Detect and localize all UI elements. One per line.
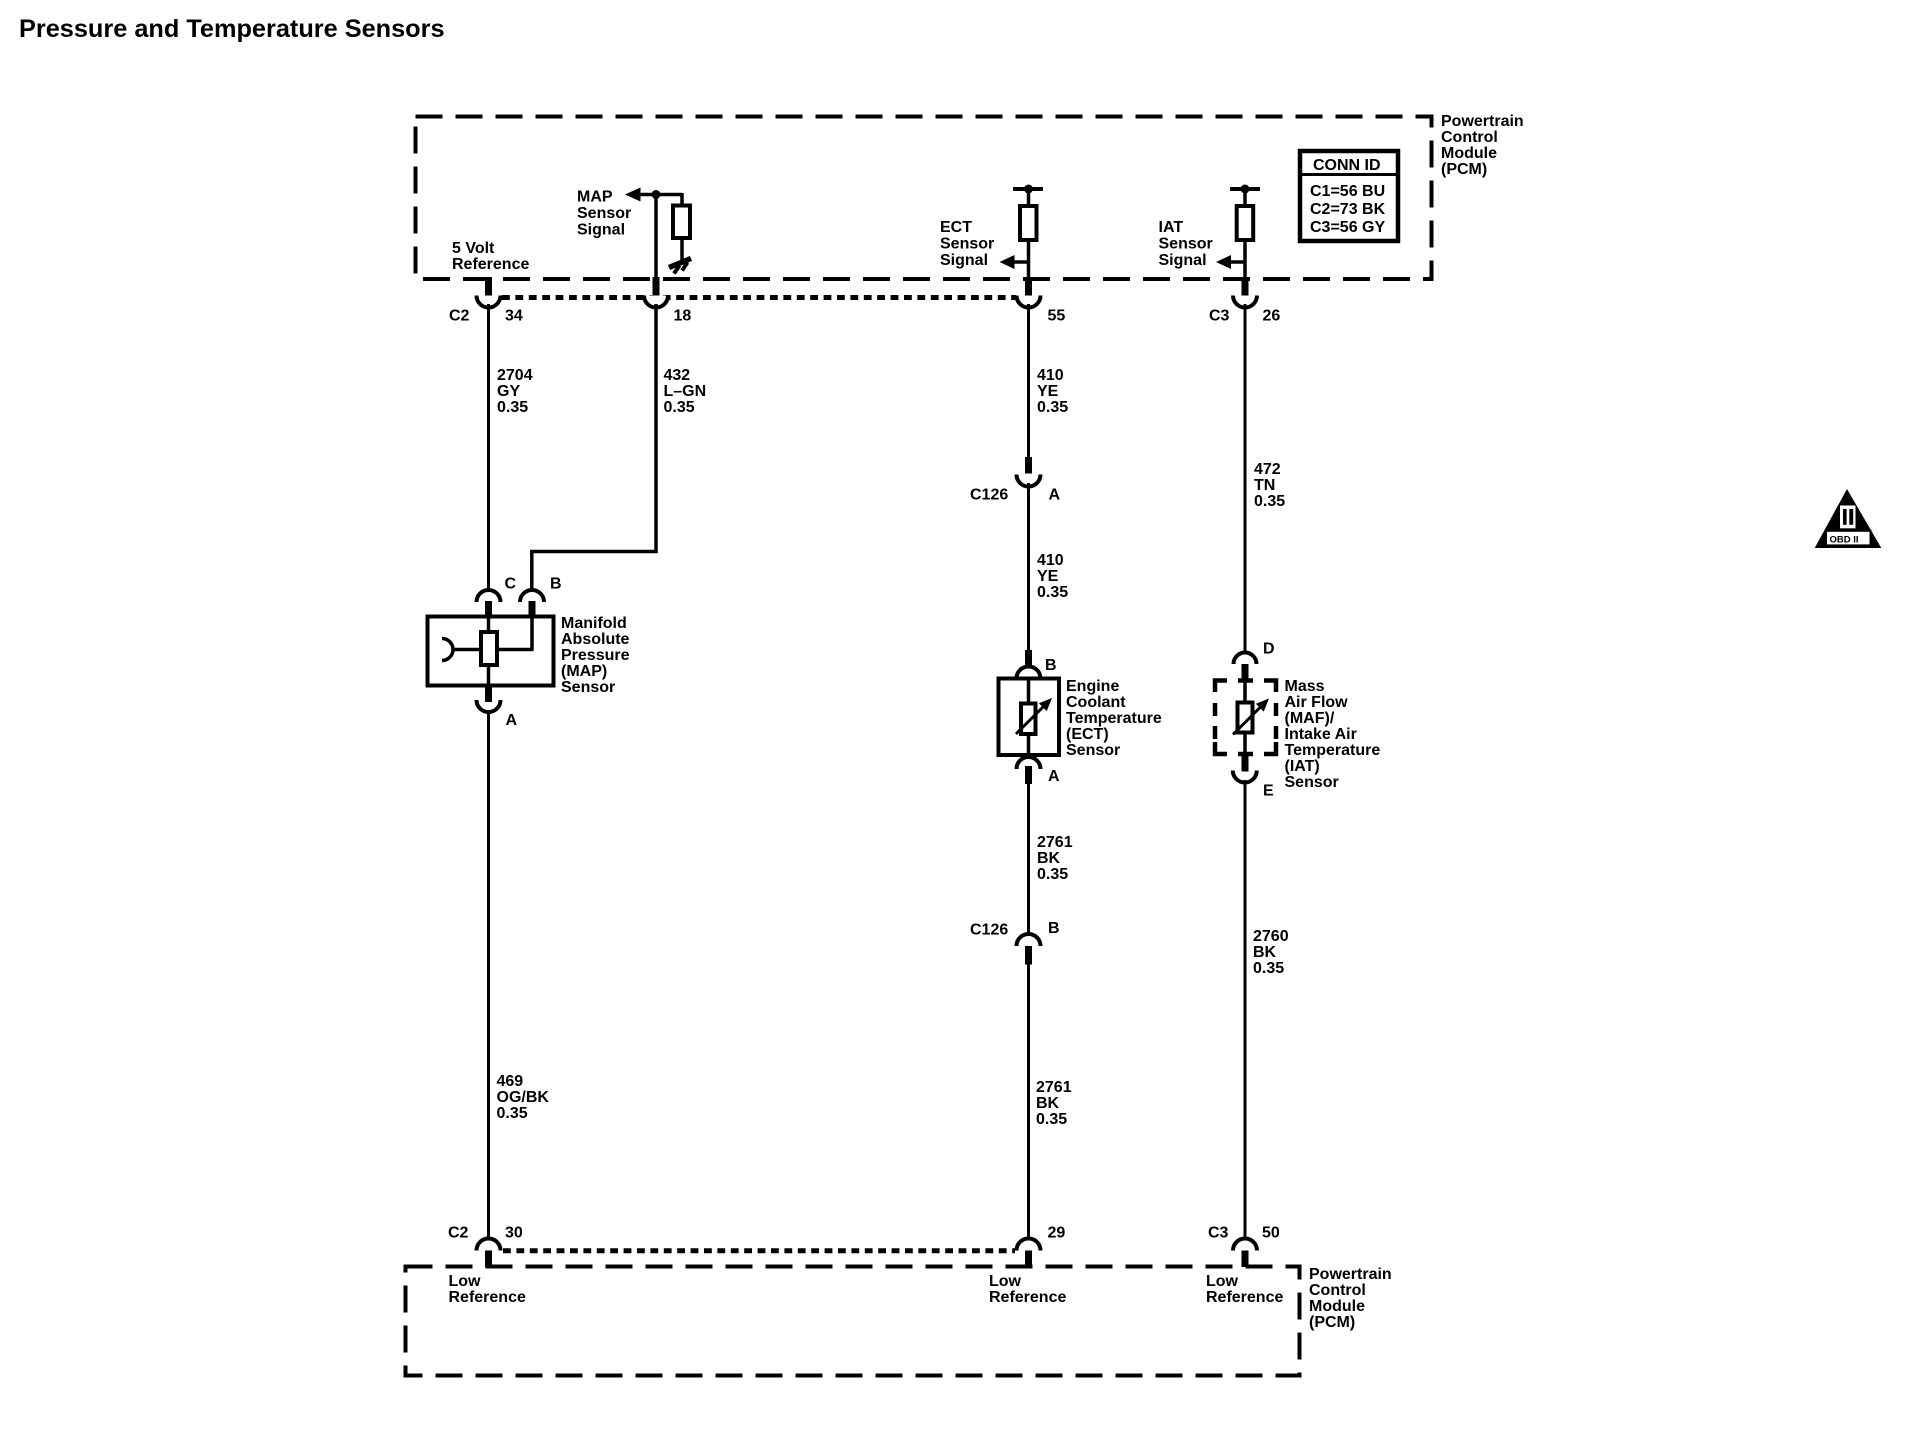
svg-text:5 Volt: 5 Volt <box>452 240 495 257</box>
wire 2761 BK (ECT A to C126 B) <box>1027 784 1030 935</box>
label: 469 OG/BK 0.35 <box>497 1073 550 1122</box>
svg-text:Intake Air: Intake Air <box>1285 726 1357 743</box>
svg-text:Sensor: Sensor <box>1066 742 1120 759</box>
svg-text:Reference: Reference <box>1206 1289 1283 1306</box>
junction node (MAP signal) <box>652 190 661 199</box>
svg-text:B: B <box>550 576 562 593</box>
svg-text:55: 55 <box>1048 308 1066 325</box>
resistor (ECT thermistor) <box>1021 704 1036 735</box>
svg-text:Sensor: Sensor <box>1159 236 1213 253</box>
connector ECT pin A <box>1017 757 1041 784</box>
label: 2761 BK 0.35 (lower) <box>1036 1079 1072 1128</box>
svg-text:Temperature: Temperature <box>1066 710 1162 727</box>
svg-text:0.35: 0.35 <box>1253 960 1284 977</box>
svg-text:432: 432 <box>664 367 691 384</box>
label: MAP Sensor Signal <box>577 189 631 239</box>
CONN ID table <box>1300 151 1398 241</box>
svg-text:A: A <box>1048 768 1060 785</box>
wire 2760 BK (MAF E to pin 50) <box>1244 780 1247 1240</box>
svg-text:Reference: Reference <box>449 1289 526 1306</box>
label: 472 TN 0.35 <box>1254 461 1285 510</box>
svg-text:Absolute: Absolute <box>561 631 630 648</box>
svg-text:Reference: Reference <box>989 1289 1066 1306</box>
svg-text:Sensor: Sensor <box>577 205 631 222</box>
svg-text:Pressure: Pressure <box>561 647 630 664</box>
svg-text:Module: Module <box>1441 145 1497 162</box>
connector ECT pin B <box>1017 650 1041 679</box>
label C126 / A <box>970 487 1061 504</box>
IAT pull-up T-bar node <box>1230 185 1260 194</box>
svg-text:D: D <box>1263 641 1275 658</box>
label: Powertrain Control Module (PCM) bottom <box>1309 1266 1392 1331</box>
connector MAP pin A <box>477 686 501 713</box>
label: IAT Sensor Signal <box>1159 219 1213 269</box>
ECT sensor signal arrow <box>1000 255 1029 269</box>
ECT internal wiring <box>1027 679 1031 756</box>
svg-text:BK: BK <box>1253 944 1277 961</box>
svg-text:2760: 2760 <box>1253 928 1289 945</box>
resistor (IAT pull-up, internal) <box>1237 206 1254 240</box>
connector MAP pin C <box>477 590 501 618</box>
label: Manifold Absolute Pressure (MAP) Sensor <box>561 615 630 696</box>
MAP internal: pressure port crescent <box>442 639 453 661</box>
svg-text:50: 50 <box>1262 1225 1280 1242</box>
svg-text:BK: BK <box>1037 850 1061 867</box>
svg-text:2761: 2761 <box>1036 1079 1072 1096</box>
svg-text:Coolant: Coolant <box>1066 694 1126 711</box>
MAP internal wiring <box>453 617 534 688</box>
MAP sensor box <box>428 617 554 686</box>
svg-text:ECT: ECT <box>940 219 972 236</box>
svg-text:C126: C126 <box>970 487 1008 504</box>
connector pin 55 (PCM) <box>1017 277 1041 308</box>
resistor (IAT thermistor) <box>1238 703 1253 733</box>
svg-text:C2: C2 <box>448 1225 469 1242</box>
label: 410 YE 0.35 (upper) <box>1037 367 1068 416</box>
label: Engine Coolant Temperature (ECT) Sensor <box>1066 678 1162 759</box>
svg-text:Pressure and Temperature Senso: Pressure and Temperature Sensors <box>19 15 445 43</box>
svg-text:2704: 2704 <box>497 367 533 384</box>
svg-text:A: A <box>506 712 518 729</box>
PCM module box (bottom, dashed) <box>406 1267 1300 1376</box>
connector MAF/IAT pin D <box>1234 653 1257 682</box>
svg-text:E: E <box>1263 783 1274 800</box>
svg-text:Low: Low <box>449 1273 482 1290</box>
svg-text:Reference: Reference <box>452 256 529 273</box>
svg-text:MAP: MAP <box>577 189 613 206</box>
svg-text:OG/BK: OG/BK <box>497 1089 550 1106</box>
svg-text:YE: YE <box>1037 568 1059 585</box>
IAT sensor signal arrow <box>1216 255 1245 269</box>
OBD II symbol <box>1815 489 1882 548</box>
resistor (ECT pull-up, internal) <box>1020 206 1037 240</box>
inline connector C126 pin A <box>1017 457 1041 487</box>
label C2 / pin 34 <box>449 308 523 325</box>
label: Low Reference (right) <box>1206 1273 1283 1306</box>
svg-text:469: 469 <box>497 1073 524 1090</box>
ground (PCM internal) <box>669 259 691 274</box>
label C3 / pin 50 <box>1208 1225 1280 1242</box>
label: Low Reference (left) <box>449 1273 526 1306</box>
svg-text:Signal: Signal <box>577 222 625 239</box>
svg-text:Low: Low <box>989 1273 1022 1290</box>
svg-text:Signal: Signal <box>940 252 988 269</box>
wire: resistor to ground <box>680 238 684 263</box>
label: 2704 GY 0.35 <box>497 367 533 416</box>
svg-text:(ECT): (ECT) <box>1066 726 1109 743</box>
svg-text:Powertrain: Powertrain <box>1441 113 1524 130</box>
label: 410 YE 0.35 (lower) <box>1037 552 1068 601</box>
wire 2704 GY (pin 34 to MAP C) <box>487 304 490 592</box>
svg-text:Powertrain: Powertrain <box>1309 1266 1392 1283</box>
svg-text:L–GN: L–GN <box>664 383 707 400</box>
svg-text:Control: Control <box>1441 129 1498 146</box>
svg-text:BK: BK <box>1036 1095 1060 1112</box>
svg-text:YE: YE <box>1037 383 1059 400</box>
svg-text:C2: C2 <box>449 308 470 325</box>
svg-text:0.35: 0.35 <box>1037 584 1068 601</box>
svg-text:TN: TN <box>1254 477 1275 494</box>
svg-text:0.35: 0.35 <box>1037 866 1068 883</box>
ECT pull-up T-bar node <box>1013 185 1043 194</box>
svg-text:0.35: 0.35 <box>664 399 695 416</box>
svg-text:26: 26 <box>1263 308 1281 325</box>
wire 472 TN (pin 26 to MAF D) <box>1244 304 1247 653</box>
svg-text:Sensor: Sensor <box>940 236 994 253</box>
wire 432 L-GN (pin 18 to MAP B) <box>532 304 656 592</box>
connector pin 18 (PCM) <box>644 277 668 308</box>
label: 432 L-GN 0.35 <box>664 367 707 416</box>
svg-text:CONN ID: CONN ID <box>1313 157 1381 174</box>
svg-text:(MAF)/: (MAF)/ <box>1285 710 1335 727</box>
label: Low Reference (middle) <box>989 1273 1066 1306</box>
svg-text:C1=56 BU: C1=56 BU <box>1310 183 1385 200</box>
wire: MAP signal inside PCM <box>654 195 658 280</box>
label: Mass Air Flow (MAF)/ Intake Air Temperature (IAT) Sensor <box>1285 678 1381 791</box>
svg-text:472: 472 <box>1254 461 1281 478</box>
wire: T-bar to ECT resistor <box>1027 189 1031 206</box>
svg-text:A: A <box>1049 487 1061 504</box>
svg-text:Mass: Mass <box>1285 678 1325 695</box>
harness dotted line (bottom connector row) <box>503 1248 1015 1253</box>
svg-text:0.35: 0.35 <box>497 1105 528 1122</box>
IAT variable arrow <box>1233 699 1269 735</box>
label C126 / B <box>970 920 1060 939</box>
connector pin 29 (PCM) <box>1017 1239 1041 1268</box>
connector C2 pin 30 (PCM) <box>477 1239 501 1268</box>
svg-text:(PCM): (PCM) <box>1441 161 1487 178</box>
svg-text:Temperature: Temperature <box>1285 742 1381 759</box>
label: 2761 BK 0.35 (upper) <box>1037 834 1073 883</box>
wire: T-bar to IAT resistor <box>1243 189 1247 206</box>
wire 410 YE (pin 55 to C126 A) <box>1027 304 1030 459</box>
svg-text:C: C <box>505 576 517 593</box>
connector C3 pin 50 (PCM) <box>1233 1239 1257 1268</box>
inline connector C126 pin B <box>1017 934 1041 965</box>
svg-text:C3: C3 <box>1209 308 1230 325</box>
wire: to MAP pull-up resistor <box>680 193 684 206</box>
svg-text:29: 29 <box>1048 1225 1066 1242</box>
svg-text:C126: C126 <box>970 922 1008 939</box>
ECT variable arrow <box>1016 698 1052 734</box>
svg-text:0.35: 0.35 <box>1036 1111 1067 1128</box>
svg-text:GY: GY <box>497 383 520 400</box>
connector C2 pin 34 (PCM) <box>477 277 501 308</box>
connector MAF/IAT pin E <box>1233 754 1257 783</box>
harness dotted line (top connector row) <box>502 295 1016 300</box>
svg-text:IAT: IAT <box>1159 219 1184 236</box>
svg-text:C2=73 BK: C2=73 BK <box>1310 201 1386 218</box>
wire 410 YE (C126 A to ECT B) <box>1027 483 1030 651</box>
svg-text:(PCM): (PCM) <box>1309 1314 1355 1331</box>
svg-text:34: 34 <box>505 308 523 325</box>
wire 2761 BK (C126 B to pin 29) <box>1027 965 1030 1241</box>
resistor (MAP transducer element) <box>481 632 497 665</box>
svg-text:Sensor: Sensor <box>1285 774 1339 791</box>
label C3 / pin 26 <box>1209 308 1280 325</box>
svg-text:Air Flow: Air Flow <box>1285 694 1349 711</box>
svg-text:Sensor: Sensor <box>561 679 615 696</box>
svg-text:18: 18 <box>674 308 692 325</box>
label C2 / pin 30 <box>448 1225 523 1242</box>
svg-text:2761: 2761 <box>1037 834 1073 851</box>
svg-text:B: B <box>1048 920 1060 937</box>
wire: ECT resistor down to pin 55 <box>1027 240 1031 279</box>
svg-text:Signal: Signal <box>1159 252 1207 269</box>
MAP sensor signal arrow <box>625 188 682 202</box>
wire: IAT resistor down to pin 26 <box>1243 240 1247 279</box>
svg-text:C3=56 GY: C3=56 GY <box>1310 219 1385 236</box>
connector C3 pin 26 (PCM) <box>1233 277 1257 308</box>
svg-text:0.35: 0.35 <box>1254 493 1285 510</box>
MAF internal wiring <box>1243 678 1247 756</box>
wire 469 OG/BK (MAP A to pin 30) <box>487 710 490 1240</box>
svg-text:Module: Module <box>1309 1298 1365 1315</box>
label: 5 Volt Reference <box>452 240 529 273</box>
svg-text:Manifold: Manifold <box>561 615 627 632</box>
svg-text:B: B <box>1045 657 1057 674</box>
connector MAP pin B <box>520 590 544 618</box>
svg-text:C3: C3 <box>1208 1225 1229 1242</box>
svg-text:Low: Low <box>1206 1273 1239 1290</box>
MAF/IAT sensor box (dashed) <box>1215 681 1276 755</box>
PCM module box (top, dashed) <box>416 117 1432 280</box>
svg-text:410: 410 <box>1037 552 1064 569</box>
svg-text:Control: Control <box>1309 1282 1366 1299</box>
svg-text:410: 410 <box>1037 367 1064 384</box>
svg-text:(MAP): (MAP) <box>561 663 607 680</box>
svg-text:OBD II: OBD II <box>1830 535 1859 546</box>
svg-text:30: 30 <box>505 1225 523 1242</box>
label: ECT Sensor Signal <box>940 219 994 269</box>
resistor (MAP bias, internal) <box>673 206 690 239</box>
label: 2760 BK 0.35 <box>1253 928 1289 977</box>
label: Powertrain Control Module (PCM) top <box>1441 113 1524 178</box>
svg-text:Engine: Engine <box>1066 678 1119 695</box>
svg-text:0.35: 0.35 <box>1037 399 1068 416</box>
svg-text:0.35: 0.35 <box>497 399 528 416</box>
ECT sensor box <box>999 679 1060 756</box>
svg-text:(IAT): (IAT) <box>1285 758 1320 775</box>
